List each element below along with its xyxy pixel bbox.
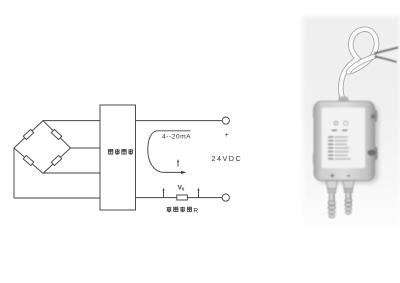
photo background bbox=[303, 16, 400, 228]
resistor bridge arm bottom-left bbox=[23, 155, 34, 165]
fitting right collar bbox=[344, 189, 352, 193]
arrowhead voltage tick left bbox=[162, 188, 164, 191]
fitting left stem bbox=[329, 193, 334, 210]
svg-text:+: + bbox=[225, 132, 229, 139]
resistor bridge arm top-left bbox=[23, 129, 33, 139]
mounting ear top-right bbox=[372, 110, 377, 122]
terminal minus circle bbox=[222, 194, 229, 201]
cable gland bbox=[339, 97, 349, 104]
fitting right barbs bbox=[345, 199, 352, 215]
mounting ear top-left bbox=[313, 107, 317, 118]
cable coil bbox=[341, 29, 377, 100]
svg-text:V0: V0 bbox=[178, 184, 185, 191]
arrowhead loop arrow bbox=[181, 171, 186, 174]
wire box to plus terminal bbox=[136, 120, 223, 122]
label text rows bbox=[328, 136, 351, 159]
label minus bbox=[225, 185, 229, 187]
fitting right nut bbox=[343, 181, 354, 189]
wire bridge top vertex to converter box bbox=[43, 120, 100, 122]
label header marks bbox=[332, 130, 348, 132]
fitting right stem bbox=[346, 193, 351, 207]
svg-text:4--20mA: 4--20mA bbox=[162, 133, 191, 140]
arrowhead small current arrow bbox=[177, 159, 179, 162]
terminal plus circle bbox=[222, 117, 229, 124]
arrowhead voltage tick right bbox=[197, 188, 199, 191]
mounting ear bottom-left bbox=[313, 152, 317, 164]
fitting left barbs bbox=[328, 201, 335, 218]
body plus mark bbox=[331, 174, 351, 178]
device shadow bbox=[317, 105, 378, 183]
resistor bridge arm bottom-right bbox=[51, 155, 61, 165]
label button left bbox=[334, 121, 338, 125]
screw right lower bbox=[368, 150, 376, 156]
mounting ear bottom-right bbox=[372, 147, 378, 160]
current loop arrow 4-20mA bbox=[148, 131, 191, 173]
label plate bbox=[322, 108, 366, 169]
converter box bbox=[100, 105, 136, 210]
label 负载电阻R bbox=[167, 207, 192, 212]
screw right upper bbox=[371, 114, 376, 118]
voltage tick left bbox=[163, 190, 165, 197]
device body bbox=[314, 101, 375, 180]
fitting left nut bbox=[326, 181, 337, 189]
body minus mark bbox=[347, 175, 350, 177]
resistor bridge arm top-right bbox=[51, 129, 61, 139]
wire bridge right vertex to converter box bbox=[70, 147, 100, 149]
svg-text:24VDC: 24VDC bbox=[212, 154, 243, 163]
wire bridge bottom vertex to converter box bbox=[43, 172, 100, 174]
label 转换线路 in converter box bbox=[108, 149, 133, 154]
load resistor R bbox=[177, 195, 188, 200]
voltage tick right bbox=[198, 190, 200, 197]
wire box to minus terminal through load bbox=[136, 197, 223, 199]
label button right bbox=[343, 121, 347, 125]
wire bridge left vertex down bbox=[13, 148, 15, 198]
bridge diamond bbox=[14, 121, 71, 174]
fitting left collar bbox=[328, 189, 336, 193]
wire leads bbox=[374, 48, 398, 63]
current direction small arrow bbox=[177, 162, 179, 167]
wire lower run to converter box bbox=[14, 197, 100, 199]
svg-text:R: R bbox=[193, 208, 198, 215]
